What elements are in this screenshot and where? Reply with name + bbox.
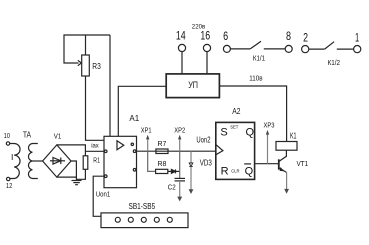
svg-text:16: 16 [200,29,210,43]
svg-text:I: I [11,152,13,162]
bridge rectifier V1 diamond [43,145,71,177]
svg-text:R7: R7 [158,139,167,148]
svg-text:A1: A1 [129,114,139,123]
svg-text:K1: K1 [290,131,297,140]
svg-text:Uon2: Uon2 [196,136,211,145]
terminal 14 [178,44,185,51]
label R1 [93,155,100,164]
wire bridge top corner to R1 node [57,145,86,156]
button SB1 [115,217,120,222]
A2 Q-bar overline [244,163,251,165]
V1 inner diode [50,158,65,165]
label A2 [232,107,241,116]
wire bridge right corner to ground [71,161,76,181]
wire terminal14 to UP box [181,52,183,74]
svg-text:К1/2: К1/2 [328,58,340,67]
potentiometer wiper arrow [78,60,82,65]
terminal 12 [7,177,10,180]
buttons box SB1-SB5 [101,213,188,228]
svg-text:14: 14 [176,29,186,43]
label Uon1 [96,189,110,198]
diode after R8 [168,169,180,173]
terminal 8 [285,45,292,52]
wire secondary tap to bridge [32,160,42,162]
label R3 [92,62,101,71]
svg-text:Q: Q [245,165,254,177]
wire terminal16 to UP box [206,52,208,74]
label V1 [54,134,62,141]
svg-text:iax: iax [91,143,99,150]
terminal 2 label [303,30,308,44]
A1 pin mark top right [131,143,133,145]
label I [11,152,13,162]
svg-text:8: 8 [286,29,291,43]
svg-text:R8: R8 [158,159,167,168]
svg-text:SET: SET [230,124,239,129]
label 110v [249,74,262,83]
label XP2 [174,125,185,134]
A1 triangle symbol [117,141,124,150]
resistor R3 [82,55,90,76]
A2 pin R [221,165,229,177]
transformer TA secondary winding [28,144,37,179]
label 10 [4,133,10,140]
label K1/1 [253,53,265,62]
wire bridge bottom corner to ground [57,176,77,178]
terminal 8 label [286,29,291,43]
ground [72,181,82,185]
terminal 16 label [200,29,210,43]
wire R1 bottom to ground [76,169,85,179]
capacitor C2 [175,178,186,181]
wire XP2 node down to C2 [179,151,181,178]
svg-text:R3: R3 [92,62,101,71]
A2 clock triangle [216,144,223,155]
button SB5 [167,217,172,222]
resistor R7 [156,149,168,154]
wire R3 top lead [85,35,87,55]
label K1 [290,131,297,140]
svg-text:R: R [221,165,229,177]
label 220v [192,24,206,31]
A2 pin Q [246,127,255,139]
amplifier A1 [104,136,137,187]
flip-flop A2 [216,122,255,179]
A2 CLR label [231,169,239,174]
terminal 16 [203,44,210,51]
label K1/2 [328,58,340,67]
diode VD3 [189,151,194,194]
A1 output pin [133,150,136,153]
label A1 [129,114,139,123]
svg-text:1: 1 [355,30,359,44]
svg-text:XP1: XP1 [141,125,152,134]
button SB3 [141,217,146,222]
terminal 1 [354,46,361,53]
button SB4 [154,217,159,222]
transformer TA primary winding [10,144,20,179]
wire A1 output main node to A2 clock [137,150,216,152]
label XP1 [141,125,152,134]
A1 pin mark bottom right [133,169,136,172]
test point XP2 [178,135,181,152]
svg-text:A2: A2 [232,107,241,116]
svg-text:110в: 110в [249,74,262,83]
UP control box [166,74,219,98]
svg-text:VT1: VT1 [297,159,309,168]
wire R3 bottom lead to A1 [86,76,105,140]
A2 pin Q-bar [245,165,254,177]
svg-text:VD3: VD3 [200,158,212,167]
svg-text:V1: V1 [54,134,62,141]
wire A2 output to VT1 base [255,163,278,165]
svg-text:C2: C2 [168,183,176,192]
svg-text:R1: R1 [93,155,100,164]
svg-text:12: 12 [6,183,12,190]
wire A1 Uon1 to buttons box [93,176,104,216]
label TA [23,129,31,139]
A1 input pin iax [104,150,107,153]
svg-text:К1/1: К1/1 [253,53,265,62]
label Uon2 [196,136,211,145]
terminal 6 label [223,29,228,43]
label C2 [168,183,176,192]
A2 pin S [220,127,227,139]
svg-text:Q: Q [246,127,255,139]
terminal 1 label [355,30,359,44]
switch K1/2 [309,42,354,49]
wire XP1 node down to R8 [148,151,156,171]
label iax [91,143,99,150]
wire rail to A1 top [109,35,111,136]
wire UP right 110v to relay K1 [219,86,286,142]
label 12 [6,183,12,190]
resistor R1 [83,156,88,170]
label R7 [158,139,167,148]
svg-text:CLR: CLR [231,169,239,174]
wire iax to A1 [85,150,104,152]
terminal 2 [302,46,309,53]
test point XP3 [266,130,269,164]
label UP [188,80,198,90]
svg-text:TA: TA [23,129,31,139]
label XP3 [264,121,275,130]
resistor R8 [156,169,168,173]
svg-text:XP2: XP2 [174,125,185,134]
label VD3 [200,158,212,167]
test point XP1 [146,135,149,152]
relay coil K1 [276,142,297,151]
svg-text:2: 2 [303,30,308,44]
svg-text:SB1-SB5: SB1-SB5 [129,202,156,211]
svg-text:УП: УП [188,80,198,90]
svg-text:10: 10 [4,133,10,140]
A2 SET label [230,124,239,129]
wire UP left to A1 top [118,86,166,136]
wire C2 down arrow [177,181,182,202]
terminal 6 [223,45,230,52]
svg-text:XP3: XP3 [264,121,275,130]
A1 input pin Uon1 [104,175,107,178]
switch K1/1 [230,41,285,49]
button SB2 [128,217,133,222]
svg-text:S: S [220,127,227,139]
wire top rail [64,35,110,63]
transistor VT1 [279,150,287,172]
svg-text:Uon1: Uon1 [96,189,110,198]
terminal 10 [6,142,9,145]
wire VT1 emitter down arrow [284,172,289,193]
terminal 14 label [176,29,186,43]
label R8 [158,159,167,168]
label VT1 [297,159,309,168]
svg-text:6: 6 [223,29,228,43]
label SB1-SB5 [129,202,156,211]
